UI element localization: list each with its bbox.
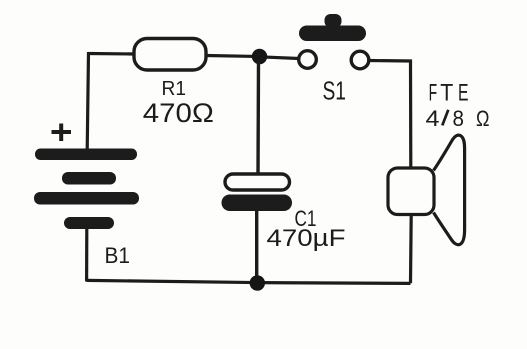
svg-text:E: E [458, 80, 469, 107]
svg-text:B1: B1 [105, 243, 131, 268]
svg-text:T: T [440, 80, 453, 107]
node junction bottom [250, 275, 265, 290]
bottom return wire [87, 280, 411, 283]
wire switch to right corner and down [369, 61, 411, 171]
battery bottom lead wire [85, 228, 88, 282]
wire junction to switch [259, 57, 299, 59]
svg-text:470µF: 470µF [267, 225, 346, 252]
capacitor bottom lead wire [255, 210, 258, 283]
switch S1 right contact [351, 51, 369, 69]
svg-text:4: 4 [426, 106, 440, 131]
speaker cone [434, 135, 465, 245]
battery B1 plate 4 short [64, 217, 114, 229]
battery B1 plate 3 long [34, 192, 139, 205]
slash of 4/8 [442, 110, 448, 126]
speaker bottom lead wire [409, 215, 413, 284]
battery B1 plate 2 short [62, 172, 116, 185]
battery B1 plus sign [52, 124, 72, 142]
svg-text:8: 8 [453, 106, 465, 131]
svg-text:S1: S1 [323, 76, 347, 106]
wire top-left horizontal [89, 52, 135, 56]
capacitor C1 top plate [225, 174, 290, 190]
svg-text:470Ω: 470Ω [143, 98, 214, 128]
node junction top [252, 49, 267, 64]
svg-text:R1: R1 [162, 77, 187, 100]
switch S1 left contact [299, 51, 317, 69]
speaker FTE driver body [388, 168, 434, 215]
svg-text:Ω: Ω [476, 106, 490, 131]
wire left vertical (battery top lead) [87, 52, 88, 150]
wire resistor to junction [206, 56, 259, 57]
capacitor C1 bottom plate [222, 195, 293, 212]
speaker lead wire through driver [410, 170, 413, 215]
switch S1 button bar [299, 26, 366, 42]
capacitor top lead wire [256, 60, 260, 176]
battery B1 plate 1 long [35, 149, 137, 161]
svg-text:F: F [429, 80, 438, 107]
resistor R1 [134, 39, 206, 71]
switch S1 button knob [325, 14, 342, 28]
